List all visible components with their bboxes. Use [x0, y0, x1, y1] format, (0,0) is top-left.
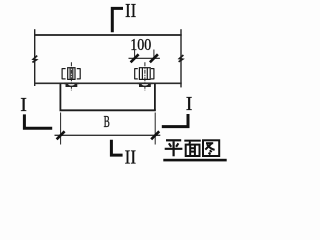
wire: top edge of foundation outline	[34, 34, 182, 36]
svg-text:II: II	[125, 0, 136, 22]
dimension B: right extension line	[154, 113, 156, 145]
title: character 面	[184, 141, 201, 156]
anchor bolt 1 nut	[68, 68, 75, 80]
wire: left edge of foundation outline	[34, 29, 36, 86]
svg-text:I: I	[20, 94, 27, 116]
section marker I (left): corner bracket	[24, 114, 52, 128]
anchor bolt 2 nut	[139, 68, 150, 80]
dimension 100: right extension line	[153, 50, 155, 60]
dimension 100: right tick	[150, 54, 158, 62]
anchor bolt 1 washer cap	[66, 84, 78, 87]
dimension B: right tick	[151, 131, 159, 139]
anchor bolt 1 centerline	[70, 62, 72, 90]
anchor bolt 2 plate	[135, 68, 154, 79]
title: character 平	[165, 140, 183, 156]
wire: right edge of foundation outline	[180, 29, 182, 87]
beam rectangle right edge	[154, 83, 156, 110]
section marker II (top): corner bracket	[112, 8, 123, 32]
dimension 100: dimension line	[129, 57, 160, 59]
beam rectangle bottom edge	[60, 109, 156, 111]
anchor bolt 2 centerline	[144, 62, 146, 90]
svg-text:B: B	[104, 112, 110, 131]
dimension 100: left tick	[131, 54, 139, 62]
dimension B: dimension line	[55, 134, 161, 136]
break mark on right edge	[179, 55, 184, 62]
section marker II (bottom): corner bracket	[111, 140, 122, 155]
break mark on left edge	[32, 56, 37, 63]
svg-text:I: I	[186, 93, 193, 115]
svg-text:100: 100	[130, 35, 151, 54]
wire: mid horizontal line (wall face)	[34, 82, 182, 84]
anchor bolt 2 washer cap	[139, 84, 151, 87]
dimension B: left tick	[57, 131, 65, 139]
svg-text:II: II	[125, 147, 137, 169]
dimension B: left extension line	[60, 113, 62, 145]
anchor bolt 1 plate	[62, 68, 80, 79]
title underline	[163, 159, 226, 162]
title: character 图	[203, 140, 219, 156]
beam rectangle left edge	[59, 83, 61, 110]
dimension 100: left extension line	[134, 50, 136, 60]
section marker I (right): corner bracket	[162, 114, 188, 127]
